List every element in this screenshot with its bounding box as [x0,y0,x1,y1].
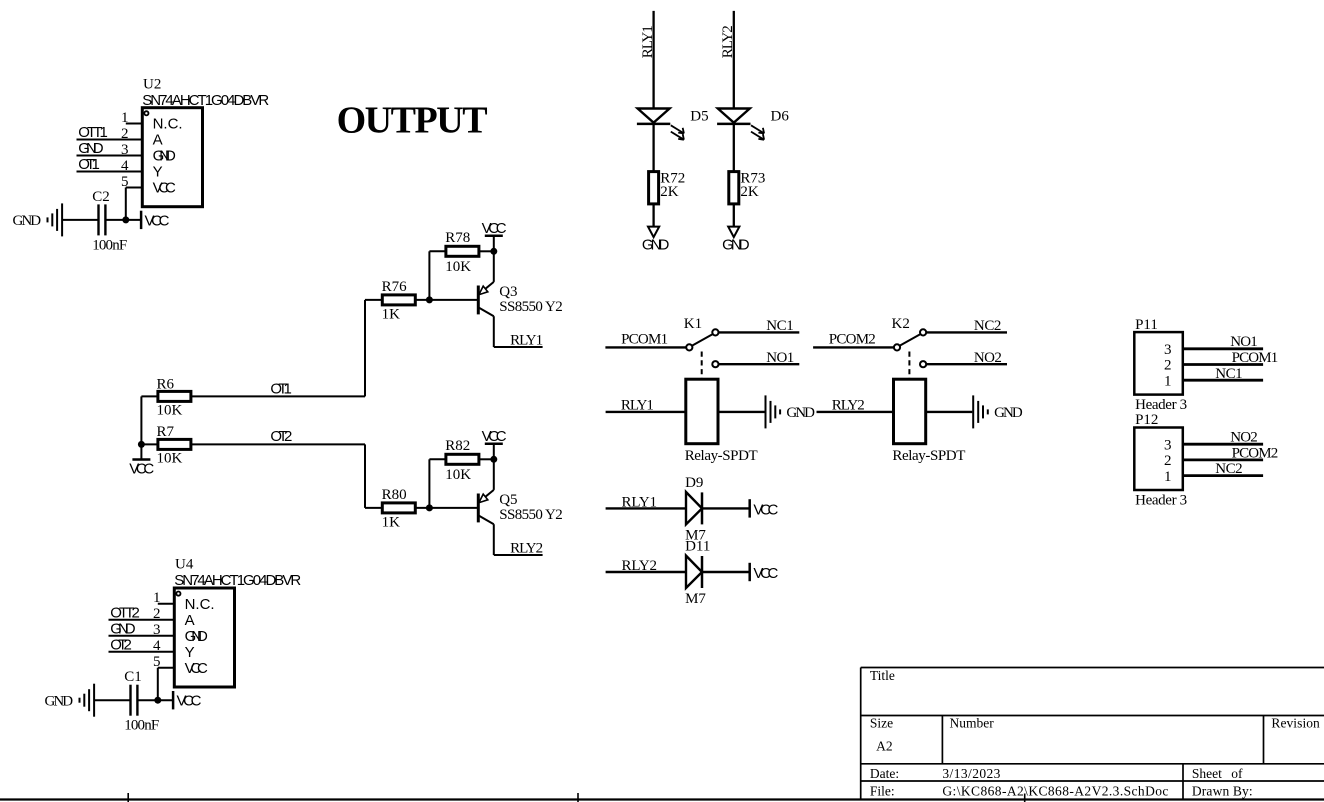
svg-text:10K: 10K [157,402,183,418]
svg-text:Drawn By:: Drawn By: [1192,783,1253,798]
svg-text:D5: D5 [690,108,708,124]
svg-text:NO2: NO2 [1230,430,1258,446]
svg-text:Date:: Date: [870,766,899,781]
svg-text:100nF: 100nF [124,718,159,734]
svg-text:GND: GND [994,405,1023,421]
svg-text:VCC: VCC [153,180,176,197]
svg-text:OT2: OT2 [270,428,292,445]
svg-text:VCC: VCC [177,693,202,710]
svg-text:RLY1: RLY1 [640,25,656,58]
svg-text:D6: D6 [771,108,790,124]
svg-text:10K: 10K [445,467,471,483]
svg-text:OTT2: OTT2 [110,605,140,622]
svg-text:VCC: VCC [185,660,208,677]
svg-text:GND: GND [110,621,135,638]
svg-text:R76: R76 [382,279,408,295]
svg-text:Revision: Revision [1271,716,1320,731]
svg-text:Q3: Q3 [499,284,517,300]
svg-text:GND: GND [78,140,103,157]
svg-text:OTT1: OTT1 [78,124,108,141]
svg-text:R78: R78 [445,230,470,246]
svg-text:R80: R80 [382,487,407,503]
svg-text:SN74AHCT1G04DBVR: SN74AHCT1G04DBVR [142,92,269,109]
svg-text:D9: D9 [685,475,703,491]
svg-text:2K: 2K [660,184,679,200]
svg-text:GND: GND [13,213,42,229]
svg-text:Relay-SPDT: Relay-SPDT [685,448,758,464]
svg-text:2: 2 [1164,358,1172,374]
svg-text:5: 5 [153,654,161,670]
svg-text:P11: P11 [1135,317,1158,333]
svg-text:VCC: VCC [482,220,507,237]
svg-text:M7: M7 [685,591,706,607]
svg-text:1K: 1K [382,515,401,531]
svg-text:K1: K1 [684,316,702,332]
svg-text:NC2: NC2 [974,318,1002,334]
svg-text:Q5: Q5 [499,492,517,508]
svg-text:R82: R82 [445,438,470,454]
svg-text:NO2: NO2 [974,350,1002,366]
svg-text:VCC: VCC [753,502,778,519]
svg-text:Header 3: Header 3 [1135,397,1187,413]
svg-text:RLY2: RLY2 [622,558,658,574]
svg-text:GND: GND [786,405,815,421]
svg-text:2K: 2K [740,184,759,200]
svg-text:NO1: NO1 [766,350,794,366]
svg-text:10K: 10K [445,259,471,275]
svg-text:2: 2 [121,126,129,142]
svg-text:GND: GND [722,237,750,254]
svg-text:VCC: VCC [753,565,778,582]
svg-text:R7: R7 [157,424,175,440]
svg-text:4: 4 [121,158,129,174]
svg-text:NO1: NO1 [1230,334,1258,350]
svg-text:5: 5 [121,174,129,190]
svg-text:Title: Title [870,668,895,683]
svg-text:VCC: VCC [145,212,170,229]
svg-text:N.C.: N.C. [153,116,183,133]
svg-text:File:: File: [870,783,895,798]
svg-text:SN74AHCT1G04DBVR: SN74AHCT1G04DBVR [174,572,301,589]
svg-text:N.C.: N.C. [185,596,215,613]
svg-text:4: 4 [153,638,161,654]
svg-text:Size: Size [870,716,893,731]
svg-text:PCOM2: PCOM2 [1232,446,1279,462]
svg-text:NC1: NC1 [766,318,794,334]
svg-text:GND: GND [153,148,176,165]
svg-text:C2: C2 [92,189,110,205]
svg-text:SS8550 Y2: SS8550 Y2 [499,507,563,523]
svg-text:Header 3: Header 3 [1135,492,1187,508]
svg-text:OT1: OT1 [78,156,100,173]
svg-text:OT2: OT2 [110,637,132,654]
svg-text:Number: Number [950,716,995,731]
svg-text:1: 1 [1164,469,1172,485]
svg-text:RLY2: RLY2 [510,541,543,557]
svg-text:GND: GND [185,628,208,645]
svg-text:3: 3 [153,622,161,638]
svg-text:C1: C1 [124,669,142,685]
svg-text:A: A [153,132,163,149]
svg-text:VCC: VCC [482,428,507,445]
svg-text:U4: U4 [175,557,194,573]
svg-text:U2: U2 [143,76,161,92]
svg-text:10K: 10K [157,450,183,466]
svg-text:OT1: OT1 [270,380,292,397]
svg-text:PCOM1: PCOM1 [621,332,668,348]
svg-text:VCC: VCC [129,461,154,478]
svg-text:R6: R6 [157,376,175,392]
svg-text:K2: K2 [892,316,910,332]
svg-text:NC1: NC1 [1215,366,1242,382]
svg-text:3: 3 [1164,437,1172,453]
svg-text:2: 2 [1164,453,1172,469]
svg-text:1: 1 [153,590,161,606]
svg-text:RLY1: RLY1 [510,333,543,349]
svg-text:Y: Y [185,644,195,661]
svg-text:3: 3 [1164,342,1172,358]
svg-text:RLY2: RLY2 [832,398,865,414]
svg-text:SS8550 Y2: SS8550 Y2 [499,299,563,315]
svg-text:A: A [185,612,195,629]
svg-text:1: 1 [121,110,129,126]
svg-text:P12: P12 [1135,412,1158,428]
svg-text:A2: A2 [876,738,893,753]
svg-text:OUTPUT: OUTPUT [337,99,488,141]
svg-text:3/13/2023: 3/13/2023 [942,766,1000,781]
svg-text:G:\KC868-A2\KC868-A2V2.3.SchDo: G:\KC868-A2\KC868-A2V2.3.SchDoc [942,783,1168,798]
svg-text:Relay-SPDT: Relay-SPDT [892,448,965,464]
svg-text:Y: Y [153,164,163,181]
svg-text:2: 2 [153,606,161,622]
svg-text:PCOM2: PCOM2 [829,332,876,348]
svg-text:Sheet: Sheet [1192,766,1222,781]
svg-text:GND: GND [642,237,670,254]
svg-text:RLY2: RLY2 [720,25,736,58]
svg-text:GND: GND [45,693,74,709]
svg-text:3: 3 [121,142,129,158]
svg-text:RLY1: RLY1 [622,495,658,511]
svg-text:PCOM1: PCOM1 [1232,350,1279,366]
svg-text:100nF: 100nF [92,237,127,253]
svg-text:1: 1 [1164,373,1172,389]
svg-text:RLY1: RLY1 [621,398,654,414]
svg-text:1K: 1K [382,307,401,323]
svg-text:of: of [1231,766,1243,781]
svg-text:D11: D11 [685,539,710,555]
svg-text:NC2: NC2 [1215,461,1242,477]
